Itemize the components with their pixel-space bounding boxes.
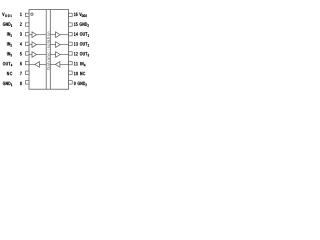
pin 10 number and label 10 NC [74,72,85,75]
pin 11 box [69,61,73,64]
isolation barrier line left [45,10,47,90]
buffer B4 right pointing left [55,62,60,68]
pin 9 number and label 9 GND2 [74,82,87,86]
pin 15 number and label 15 GND2 [74,22,89,26]
pin 6 number [20,62,22,65]
pin 14 number and label 14 OUT1 [74,32,89,36]
pin 11 number and label 11 IN4 [74,62,85,66]
buffer A3 left [32,52,37,58]
pin 8 box [25,81,29,84]
pin 12 number and label 12 OUT3 [74,52,89,56]
channel 2 wire: buffer to barrier [37,44,47,46]
pin 3 number [20,32,22,35]
pin 13 number and label 13 OUT2 [74,42,89,46]
pin 6 label OUT4 [3,62,12,66]
buffer B1 right [56,32,61,38]
pin 13 box [69,42,73,45]
channel 1 wire: buffer to barrier [37,34,47,36]
buffer A4 left pointing left [35,62,40,68]
channel 3 wire: pin to buffer [29,54,32,56]
isolation barrier line right [49,10,51,90]
pin 15 box [69,23,73,26]
galvanic isolation vertical label [47,32,50,70]
pin 1 indicator circle [31,13,33,15]
pin 16 number and label 16 VDD2 [74,13,87,17]
pin 8 label GND1 [3,82,12,86]
pin 7 box [25,71,29,74]
pin 8 number [20,82,22,85]
pin 5 box [25,52,29,55]
pin 3 label IN1 [7,32,12,36]
pin 2 label GND1 [3,22,12,26]
pin 5 label IN3 [7,52,12,56]
channel 2 wire: buffer to pin [60,44,69,46]
channel 3 wire: buffer to barrier [37,54,47,56]
channel 4 wire: pin6 to buffer tip [29,63,35,65]
channel 1 wire: buffer to pin [60,34,69,36]
pin 6 box [25,61,29,64]
pin 14 box [69,32,73,35]
pin 1 label VDD1 [2,13,11,17]
channel 4 wire: buffer to barrier [39,63,46,65]
pin 1 box [25,13,29,16]
channel 2 wire: barrier to right buffer [50,44,55,46]
buffer B3 right [56,52,61,58]
buffer A1 left [32,32,37,38]
channel 2 wire: pin to buffer [29,44,32,46]
pin 2 box [25,23,29,26]
pin 4 label IN2 [7,42,12,46]
pin 7 number [20,72,21,75]
channel 1 wire: pin to buffer [29,34,32,36]
buffer A2 left [32,42,37,48]
pin 7 label NC [7,72,12,75]
pin 1 number [20,13,21,16]
pin 5 number [20,52,22,55]
buffer B2 right [56,42,61,48]
IC body U1 [29,10,69,90]
pin 16 box [69,13,73,16]
pin 2 number [20,22,21,25]
pin 12 box [69,52,73,55]
pin 9 box [69,81,73,84]
channel 3 wire: buffer to pin [60,54,69,56]
channel 4 wire: barrier to right buffer tip [50,63,55,65]
pin 10 box [69,71,73,74]
pin 3 box [25,32,29,35]
channel 3 wire: barrier to right buffer [50,54,55,56]
pin 4 box [25,42,29,45]
channel 1 wire: barrier to right buffer [50,34,55,36]
channel 4 wire: buffer to pin11 [60,63,69,65]
pin 4 number [20,42,22,45]
